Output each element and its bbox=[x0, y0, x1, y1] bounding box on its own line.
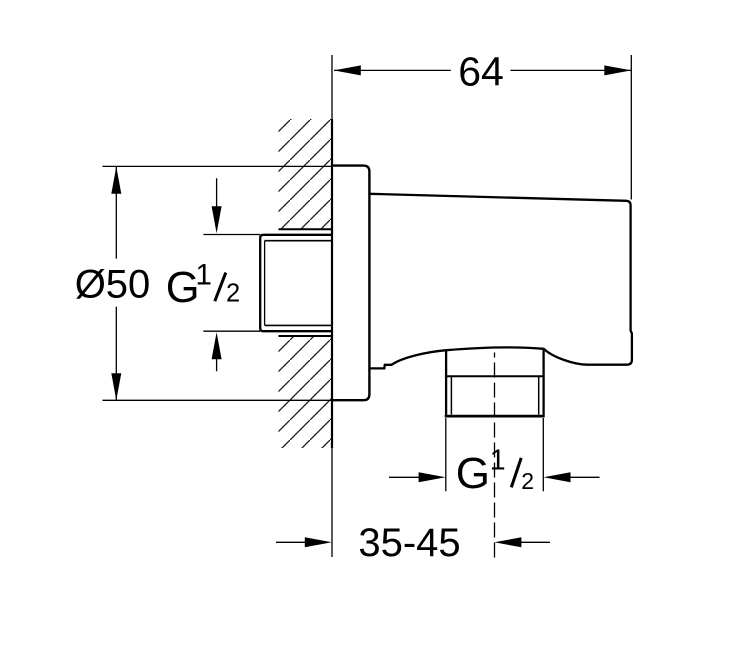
svg-text:64: 64 bbox=[458, 49, 504, 95]
svg-text:35-45: 35-45 bbox=[358, 521, 460, 565]
svg-text:1: 1 bbox=[490, 445, 506, 477]
svg-text:2: 2 bbox=[521, 468, 534, 494]
svg-text:G: G bbox=[456, 449, 490, 498]
svg-text:2: 2 bbox=[226, 280, 240, 308]
svg-text:1: 1 bbox=[196, 259, 212, 292]
svg-text:Ø50: Ø50 bbox=[75, 263, 151, 307]
